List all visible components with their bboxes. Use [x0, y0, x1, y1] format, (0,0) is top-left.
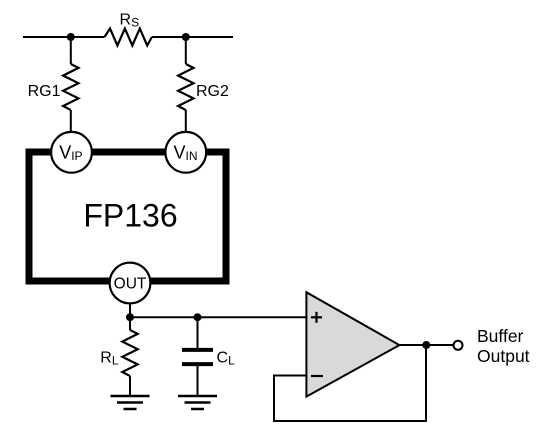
node A (top-left junction): [67, 33, 75, 41]
wire op-amp output: [399, 344, 453, 346]
wire output row to op-amp: [130, 316, 306, 318]
resistor RL: [122, 330, 137, 376]
node B (top-right junction): [182, 33, 190, 41]
resistor RS: [105, 29, 152, 46]
ground GND1: [111, 396, 150, 409]
svg-text:FP136: FP136: [83, 198, 177, 234]
svg-text:RG2: RG2: [196, 83, 229, 100]
wire RG2 bottom lead: [185, 110, 187, 133]
svg-text:Output: Output: [477, 346, 530, 366]
capacitor CL: [182, 350, 213, 364]
svg-text:Buffer: Buffer: [477, 326, 524, 346]
svg-text:OUT: OUT: [114, 276, 147, 293]
pin VIP: [51, 132, 92, 173]
op-amp U2: [306, 292, 399, 396]
resistor RG1: [63, 64, 78, 110]
svg-text:RG1: RG1: [28, 83, 61, 100]
wire top rail right: [152, 36, 233, 38]
wire top rail: [23, 36, 105, 38]
wire CL top lead: [197, 317, 199, 348]
wire RG2 top lead: [185, 37, 187, 64]
pin VIN: [165, 132, 206, 173]
wire RL top lead: [129, 317, 131, 330]
wire RL bottom lead: [129, 376, 131, 396]
wire RG1 top lead: [70, 37, 72, 64]
terminal buffer output: [454, 341, 463, 350]
ground GND2: [178, 396, 217, 409]
resistor RG2: [178, 64, 193, 110]
pin - (inverting): [311, 375, 323, 377]
block U1 FP136: [29, 152, 226, 281]
node E (feedback junction): [422, 341, 430, 349]
wire feedback: [274, 345, 426, 421]
node C (RL junction): [126, 313, 134, 321]
wire CL bottom lead: [197, 366, 199, 396]
wire RG1 bottom lead: [70, 110, 72, 133]
node D (CL junction): [194, 313, 202, 321]
pin + (noninverting): [311, 312, 322, 323]
pin OUT: [110, 263, 151, 304]
wire OUT to junction: [129, 303, 131, 317]
